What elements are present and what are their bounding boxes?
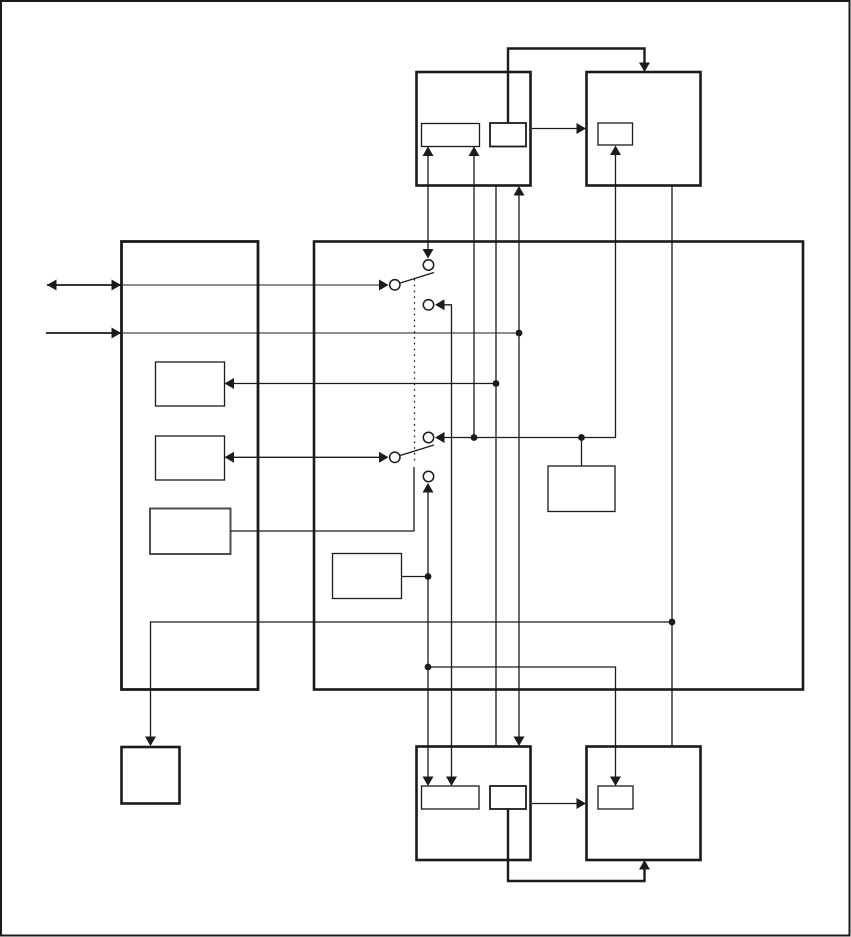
arrowhead W12 right into S2 common contact <box>379 452 389 463</box>
arrowhead W6 down onto B6 top edge <box>514 737 525 747</box>
arrowhead W12 left into B3b right edge <box>225 452 235 463</box>
sub-block B3b (middle box in left unit) <box>156 436 225 480</box>
sub-block B3c (lower gray box in left unit) <box>150 509 231 555</box>
arrowhead W6 up into B1 bottom edge <box>514 186 525 196</box>
arrowhead W10 left into S1 lower contact <box>435 299 445 310</box>
switch S1 arm <box>400 273 434 284</box>
wire W16 dotted gang link S1-S2 <box>414 279 416 461</box>
wire W1 thick feedback route B1b to B2 top <box>508 49 645 124</box>
arrowhead W7 left (external) <box>47 280 57 291</box>
wire W7 external bidirectional line to switch S1 common <box>47 284 121 286</box>
register B6b (small sub-block in B6) <box>490 786 526 809</box>
wire W21 thick feedback route B6b to B7 bottom <box>508 809 645 881</box>
block B3 left tall unit <box>122 242 259 690</box>
wire W13 vertical S2 lower contact to B6a <box>427 492 429 777</box>
wire W22 B6 to B7 <box>532 803 578 805</box>
wire W3 vertical B1a to switch S1 upper contact <box>427 147 429 251</box>
arrowhead W22 into B7 left edge <box>577 798 587 809</box>
block B7 bottom-right unit <box>587 747 701 861</box>
register B1a (wide sub-block in B1) <box>422 124 480 147</box>
switch S2 common contact <box>390 452 400 462</box>
junction J1 on wire W6 <box>516 330 523 337</box>
arrowhead W7 right into S1 common contact <box>379 280 389 291</box>
arrowhead W18 down into B5 top <box>145 737 156 747</box>
register B2a (sub-block in B2) <box>598 123 633 145</box>
wire W4 vertical B1a to node J2 <box>473 147 475 438</box>
wire W17 control line B3c to gang link <box>231 467 415 531</box>
block B6 bottom-left large unit <box>417 747 531 861</box>
wire W10 S1 lower contact down to B6a <box>444 305 452 777</box>
switch S1 upper contact <box>423 260 433 270</box>
switch S2 upper contact <box>423 432 433 442</box>
register B1b (small sub-block in B1) <box>490 123 526 147</box>
junction J3 on wire W5 <box>493 380 500 387</box>
wire W6 vertical bidirectional B1 to B6 <box>518 195 520 737</box>
block B4 central large unit <box>314 242 803 690</box>
junction J7 on wire W13 <box>425 664 432 671</box>
block B5 bottom-left small unit <box>122 747 180 804</box>
block B1 top-left unit <box>417 72 531 186</box>
junction J6 on wire W20 <box>669 619 676 626</box>
block B2 top-right unit <box>587 72 701 186</box>
register B7a (sub-block in B7) <box>598 786 633 809</box>
sub-block B4a (box inside central unit, lower-left) <box>333 554 402 599</box>
wire W2 B1 to B2 <box>532 128 578 130</box>
sub-block B4b (box inside central unit, right) <box>548 466 615 512</box>
arrowhead W1 into B2 top edge <box>639 63 650 73</box>
arrowhead W11 up into B2a bottom <box>610 146 621 156</box>
arrowhead W8 right at B3 left edge <box>112 328 122 339</box>
arrowhead W3 up into B1a bottom <box>423 147 434 157</box>
arrowhead W13 up into S2 lower contact <box>423 483 434 493</box>
wire W11 S2 upper contact to B2a <box>444 155 616 438</box>
arrowhead W10 down into B6a top <box>446 777 457 787</box>
junction J4 on wire W11 with B4b stub <box>578 434 585 441</box>
wire W18 B3 lower output to node J6 and down to B5 <box>151 622 673 737</box>
switch S2 arm <box>400 445 434 456</box>
wire W12 bidirectional B3b to S2 common <box>234 456 380 458</box>
arrowhead W7 right at B3 left edge <box>112 280 122 291</box>
register B6a (wide sub-block in B6) <box>422 786 480 809</box>
arrowhead W3 down onto S1 upper contact <box>423 249 434 259</box>
arrowhead W9 into B3a right edge <box>225 378 235 389</box>
wire W14 stub B4a to node J5 <box>402 576 429 578</box>
arrowhead W13 down into B6a top <box>423 777 434 787</box>
wire W19 from node J7 to B7a <box>428 667 616 777</box>
switch S1 common contact <box>390 280 400 290</box>
wire W9 from node J3 to sub-block B3a <box>234 383 496 385</box>
arrowhead W11 left into S2 upper contact <box>435 432 445 443</box>
wire W15 stub B4b to node J4 <box>581 438 583 467</box>
arrowhead W2 into B2 left edge <box>577 123 587 134</box>
switch S1 lower contact <box>423 300 433 310</box>
wire W5 vertical B1 bottom edge to B6 top edge <box>495 186 497 746</box>
arrowhead W4 up into B1a bottom <box>469 147 480 157</box>
sub-block B3a (upper box in left unit) <box>156 362 225 406</box>
arrowhead W21 up into B7 bottom edge <box>639 860 650 870</box>
wire W8 external input line to node J1 <box>46 332 121 334</box>
switch S2 lower contact <box>423 471 433 481</box>
arrowhead W19 down into B7a top <box>610 777 621 787</box>
junction J2 on wire W11 with W4 <box>471 434 478 441</box>
junction J5 on wire W13 <box>425 573 432 580</box>
wire W20 vertical B2 bottom edge to B7 top edge <box>671 186 673 746</box>
